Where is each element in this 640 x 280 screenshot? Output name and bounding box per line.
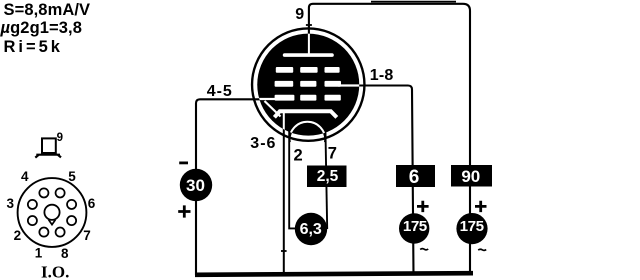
svg-text:175: 175 xyxy=(403,218,428,235)
svg-text:30: 30 xyxy=(186,176,205,195)
plus sign col 6 xyxy=(417,201,429,212)
svg-text:1-8: 1-8 xyxy=(370,67,394,84)
svg-text:3-6: 3-6 xyxy=(250,135,276,152)
heater dome white arc (inside disc) xyxy=(290,122,326,142)
tube black disc xyxy=(257,34,359,136)
svg-text:2: 2 xyxy=(294,147,303,165)
meter 6,3 (heater volts) xyxy=(295,213,327,245)
wire artifact double line on top wire xyxy=(371,1,456,3)
plus sign col 90 xyxy=(475,201,487,212)
wire pin7 heater through 2,5 box to 6,3 meter xyxy=(325,123,327,229)
box 6 (screen mA) xyxy=(396,165,435,187)
bottom rail double line xyxy=(195,273,473,275)
svg-text:Ri=5k: Ri=5k xyxy=(4,38,64,56)
pin1-8 white stub xyxy=(338,84,360,86)
minus sign above 30 xyxy=(179,161,188,164)
svg-text:6: 6 xyxy=(88,196,96,211)
svg-text:4-5: 4-5 xyxy=(207,83,233,100)
svg-text:I.O.: I.O. xyxy=(41,262,69,280)
svg-text:90: 90 xyxy=(461,167,480,186)
meter 30 (Va) xyxy=(180,169,212,201)
svg-text:6,3: 6,3 xyxy=(300,221,322,238)
svg-text:2: 2 xyxy=(14,228,22,243)
socket base circle xyxy=(18,178,87,247)
socket top-cap symbol xyxy=(42,138,56,153)
grid g3 row dashes xyxy=(276,67,293,73)
box 90 (anode mA) xyxy=(451,165,492,187)
box 2,5 (heater amps) xyxy=(307,166,347,188)
svg-text:6: 6 xyxy=(409,167,420,188)
svg-text:9: 9 xyxy=(295,6,304,23)
pin3-6 white stub xyxy=(283,113,285,133)
svg-text:175: 175 xyxy=(460,218,485,235)
wire pin2 heater to 6,3 meter xyxy=(289,123,297,228)
meter 175 (screen volts) xyxy=(399,213,429,243)
grid g1 row dashes xyxy=(275,95,295,101)
ac tilde col 6 xyxy=(420,249,428,250)
grid g2 row dashes xyxy=(275,81,294,87)
pin4-5 white stub xyxy=(257,98,277,100)
socket center hole with key notch xyxy=(44,205,59,220)
top cap tick on pin9 wire xyxy=(306,24,312,26)
svg-text:7: 7 xyxy=(83,228,91,243)
tube envelope outer circle xyxy=(252,28,364,140)
anode plate bar xyxy=(283,53,334,57)
cathode bracket xyxy=(274,111,336,117)
svg-text:7: 7 xyxy=(328,145,337,163)
svg-text:4: 4 xyxy=(21,169,29,184)
cathode lead diagonal xyxy=(265,101,281,117)
svg-text:3: 3 xyxy=(7,196,15,211)
meter 175 (anode volts) xyxy=(456,213,487,244)
wire pin9 top-cap to 90 column xyxy=(309,4,470,275)
svg-text:9: 9 xyxy=(57,132,63,144)
ac tilde col 90 xyxy=(478,249,486,250)
svg-text:5: 5 xyxy=(68,169,76,184)
wire pin4-5 grid to 30 meter and rail xyxy=(196,99,278,275)
svg-text:S=8,8mA/V: S=8,8mA/V xyxy=(4,1,91,19)
socket pin holes xyxy=(39,188,48,197)
pin9 white stub xyxy=(308,33,310,55)
svg-text:2,5: 2,5 xyxy=(317,168,339,185)
wire pin3-6 cathode down to rail xyxy=(283,112,285,277)
svg-text:1: 1 xyxy=(35,246,43,261)
svg-text:8: 8 xyxy=(61,246,69,261)
wire pin1-8 grid2 to 6 column xyxy=(330,86,414,276)
svg-text:µg2g1=3,8: µg2g1=3,8 xyxy=(0,19,82,37)
tick on 3-6 wire xyxy=(281,250,287,252)
plus sign below 30 xyxy=(178,205,190,217)
heater dome black arc (outside disc) xyxy=(290,122,326,142)
